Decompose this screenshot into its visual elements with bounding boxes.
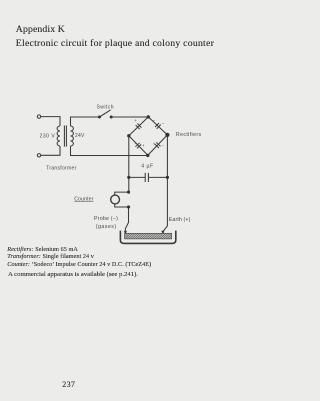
bridge arm bottom-right (148, 135, 168, 155)
transformer secondary winding (71, 126, 74, 146)
spec line counter (7, 261, 151, 268)
switch contact right (110, 116, 113, 119)
dish tray (120, 231, 175, 244)
svg-text:−: − (153, 118, 156, 123)
wire counter top lead (115, 192, 129, 195)
capacitor C1 plates (145, 173, 148, 182)
heading appendix (16, 24, 65, 35)
wire primary bottom lead (41, 146, 60, 155)
svg-text:Counter: Counter (74, 196, 93, 202)
arrowhead probe (124, 231, 127, 235)
wire secondary top lead to switch (71, 117, 100, 126)
heading title (16, 38, 214, 49)
spec line rectifiers (7, 246, 78, 253)
switch S1 (99, 110, 110, 117)
transformer core (64, 126, 66, 147)
wire primary top lead (41, 117, 60, 126)
spec line transformer (7, 253, 94, 260)
page number (62, 380, 75, 389)
wire counter bottom lead (115, 204, 129, 207)
wire left rail (128, 136, 130, 192)
junction counter bottom (127, 205, 130, 208)
svg-text:(gases): (gases) (96, 224, 117, 230)
junction capacitor left (127, 176, 130, 179)
body sentence (8, 271, 138, 278)
svg-text:+: + (153, 141, 156, 146)
wire right rail (163, 135, 168, 233)
junction bridge right (165, 133, 169, 137)
svg-text:−: − (162, 121, 165, 126)
switch contact left (98, 116, 101, 119)
wire secondary bottom lead to bridge bottom (71, 146, 148, 156)
dish agar hatched bar (120, 233, 176, 239)
svg-text:Switch: Switch (97, 104, 114, 110)
junction bridge bottom (146, 154, 149, 157)
bridge arm top-left (129, 117, 149, 136)
rectifier cell bottom-left (135, 143, 141, 149)
svg-text:+: + (142, 143, 145, 148)
terminal input bottom (37, 154, 40, 157)
junction bridge left (127, 134, 130, 137)
svg-text:24V: 24V (75, 133, 85, 139)
rectifier cell top-left (136, 124, 142, 130)
wire probe lead (125, 207, 128, 231)
counter M1 (111, 195, 120, 204)
terminal input top (37, 115, 40, 118)
svg-text:−: − (161, 143, 164, 148)
svg-text:230 V: 230 V (40, 133, 56, 139)
capacitor C1 right lead (148, 176, 167, 178)
svg-text:Transformer: Transformer (46, 165, 76, 171)
svg-text:−: − (134, 142, 137, 147)
transformer primary winding (57, 126, 60, 146)
svg-text:Rectifiers: Rectifiers (176, 132, 202, 138)
svg-text:Probe (−): Probe (−) (94, 216, 118, 222)
junction bridge top (147, 115, 150, 118)
wire switch to bridge top (111, 116, 148, 118)
capacitor C1 left lead (129, 176, 145, 178)
svg-text:Earth (+): Earth (+) (169, 217, 191, 223)
junction counter top (127, 191, 130, 194)
junction capacitor right (166, 176, 169, 179)
arrowhead earth (161, 231, 164, 235)
bridge arm top-right (148, 117, 167, 135)
bridge arm bottom-left (129, 136, 148, 156)
rectifier cell top-right (155, 123, 161, 129)
rectifier cell bottom-right (155, 142, 161, 148)
svg-text:4 µF: 4 µF (141, 163, 153, 169)
svg-text:+: + (134, 118, 137, 123)
